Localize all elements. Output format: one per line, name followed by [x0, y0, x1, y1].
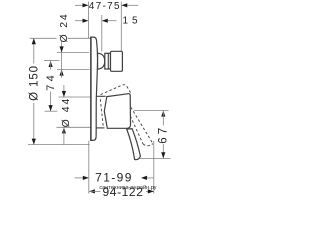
svg-text:74: 74	[45, 72, 57, 91]
svg-text:71-99: 71-99	[95, 170, 133, 184]
svg-text:Ø 24: Ø 24	[58, 13, 70, 43]
svg-text:Ø 150: Ø 150	[28, 65, 40, 101]
svg-text:Ø 44: Ø 44	[60, 97, 72, 128]
svg-text:47-75: 47-75	[89, 1, 121, 12]
svg-text:94-122: 94-122	[103, 185, 144, 199]
svg-text:15: 15	[122, 16, 141, 27]
svg-text:67: 67	[157, 125, 169, 144]
